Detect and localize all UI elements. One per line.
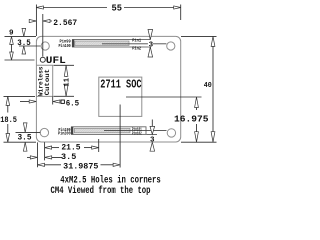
ext line right edge top xyxy=(180,5,182,21)
dim 11 line xyxy=(65,65,67,77)
ext line left edge top xyxy=(35,5,37,37)
svg-text:16.975: 16.975 xyxy=(174,113,209,124)
ext board top to left xyxy=(5,35,37,37)
arrows dim 18.5 xyxy=(6,96,10,105)
ext cutout bottom to left xyxy=(4,95,36,97)
arrows dim 40 xyxy=(211,36,215,46)
svg-text:21.5: 21.5 xyxy=(61,143,80,152)
arrows dim 9 xyxy=(10,36,14,44)
svg-text:2.567: 2.567 xyxy=(53,18,77,28)
connector J1 hatch xyxy=(75,41,129,46)
ext cutout right edge down xyxy=(52,96,54,104)
svg-text:Cutout: Cutout xyxy=(44,69,51,96)
centerline J1 to hole xyxy=(102,43,166,45)
svg-text:Pin1: Pin1 xyxy=(132,38,141,43)
dim square symbol 6.5 xyxy=(61,100,64,103)
arrows dim 16.975 xyxy=(195,97,199,108)
dim 6.5 lines xyxy=(20,101,36,103)
white behind 3 top xyxy=(148,40,153,47)
svg-text:55: 55 xyxy=(112,4,123,14)
arrows dim 3 top connector xyxy=(148,30,153,40)
svg-text:Pin100: Pin100 xyxy=(59,44,72,49)
arrows dim 3.5 hole vertical xyxy=(23,123,27,132)
svg-text:9: 9 xyxy=(9,30,14,38)
hole top-right xyxy=(167,42,175,50)
dim 3.5 top line xyxy=(23,30,25,37)
arrows dim 55 xyxy=(36,6,43,9)
dim 55 line xyxy=(36,7,107,9)
ext uFL center to left xyxy=(5,59,35,61)
arrows dim 11 xyxy=(64,65,68,76)
dim 18.5 line xyxy=(7,96,9,112)
dim 3 top shafts xyxy=(149,31,151,40)
arrows dim 2.567 xyxy=(29,19,36,22)
dim 40 line xyxy=(212,36,214,142)
dim 3 bottom shaft xyxy=(151,120,153,129)
uFL connector xyxy=(40,57,45,62)
ext board bottom to right xyxy=(181,141,217,143)
ext cutout bottom right xyxy=(54,95,75,97)
connector J2 hatch xyxy=(74,128,130,132)
ext hole BL center to left xyxy=(16,131,41,133)
svg-text:Pin200: Pin200 xyxy=(58,132,71,137)
dim 2.567 lines xyxy=(29,20,36,22)
svg-text:11: 11 xyxy=(64,78,72,87)
ext SOC center below xyxy=(119,105,121,168)
dim 31.9875 line xyxy=(38,164,62,166)
ext hole BL below board xyxy=(44,142,46,160)
ext J2 bottom edge right xyxy=(147,133,158,135)
board outline xyxy=(36,36,180,142)
ext SOC center to right xyxy=(126,96,202,98)
svg-text:3.5: 3.5 xyxy=(61,154,77,162)
svg-text:3: 3 xyxy=(149,41,154,49)
ext cutout top right xyxy=(54,64,75,66)
ext SOC left corner below xyxy=(98,139,100,152)
ext board top to right xyxy=(181,35,217,37)
svg-text:3: 3 xyxy=(150,136,155,144)
dim 21.5 line xyxy=(45,147,59,149)
hole bottom-left xyxy=(40,128,48,136)
connector J1 top outer xyxy=(73,40,151,48)
svg-text:2711 SOC: 2711 SOC xyxy=(100,78,141,91)
ext line uFL center vertical xyxy=(42,14,44,57)
svg-text:6.5: 6.5 xyxy=(66,98,80,108)
arrows dim 21.5 xyxy=(45,146,52,149)
wireless cutout outline xyxy=(36,65,52,96)
ext board bottom to left xyxy=(4,141,37,143)
hole bottom-right xyxy=(167,129,175,137)
centerline J2 to hole xyxy=(104,130,167,132)
dim 9 line xyxy=(11,36,13,60)
svg-text:4xM2.5 Holes in corners: 4xM2.5 Holes in corners xyxy=(60,174,161,186)
arrows dim 31.9875 xyxy=(38,163,45,166)
ext left edge below board xyxy=(37,142,39,167)
ext hole TL center xyxy=(19,45,41,47)
svg-text:Pin102: Pin102 xyxy=(132,131,142,136)
svg-text:Pin2: Pin2 xyxy=(132,46,141,51)
svg-text:31.9875: 31.9875 xyxy=(63,162,98,171)
hole top-left xyxy=(41,42,49,50)
dim 3.5 bottom lines xyxy=(27,156,37,158)
svg-text:18.5: 18.5 xyxy=(0,115,17,125)
arrows dim 3.5 bottom xyxy=(30,156,37,159)
svg-text:CM4 Viewed from the top: CM4 Viewed from the top xyxy=(51,185,151,197)
arrows dim 3.5 top xyxy=(22,28,26,36)
svg-text:3.5: 3.5 xyxy=(17,40,31,48)
arrows dim 6.5 xyxy=(29,100,36,103)
svg-text:40: 40 xyxy=(204,82,212,90)
dim 16.975 line xyxy=(196,97,198,110)
svg-text:3.5: 3.5 xyxy=(18,134,32,142)
SOC U1 xyxy=(99,77,142,116)
connector J2 bottom outer xyxy=(72,127,147,135)
svg-text:Pin99: Pin99 xyxy=(60,39,72,44)
arrows dim 3 bottom connector xyxy=(150,126,155,134)
